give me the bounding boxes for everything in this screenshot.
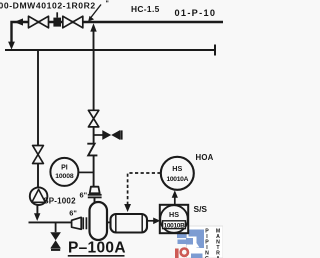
svg-text:HS: HS (169, 210, 179, 219)
svg-text:HOA: HOA (196, 153, 214, 162)
svg-text:HC-1.5: HC-1.5 (131, 4, 160, 14)
svg-text:10010B: 10010B (164, 222, 186, 229)
svg-text:": " (106, 1, 109, 8)
svg-text:10008: 10008 (55, 173, 74, 180)
svg-text:6": 6" (69, 208, 77, 217)
svg-text:SP-1002: SP-1002 (43, 197, 76, 206)
svg-text:6": 6" (80, 191, 88, 200)
svg-text:PI: PI (61, 165, 68, 172)
svg-text:S/S: S/S (194, 204, 208, 214)
svg-text:01-P-10: 01-P-10 (175, 8, 217, 18)
svg-text:10010A: 10010A (166, 176, 188, 183)
svg-text:00-DMW40102-1R0R2: 00-DMW40102-1R0R2 (0, 1, 96, 11)
svg-text:P–100A: P–100A (68, 240, 126, 257)
svg-text:HS: HS (172, 164, 182, 173)
